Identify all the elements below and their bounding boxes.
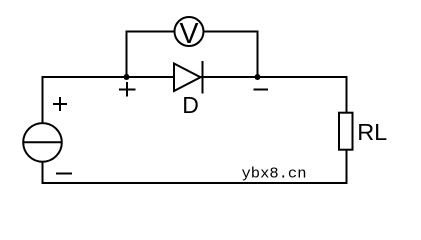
svg-text:RL: RL — [357, 119, 387, 145]
wire: right vertical upper — [346, 76, 348, 113]
wire: left vertical upper — [42, 76, 44, 123]
wire: voltmeter branch left vertical — [126, 31, 128, 78]
node B (right junction dot) — [255, 74, 261, 80]
source BT1 (circle with bar) — [23, 123, 62, 162]
node A (left junction dot) — [124, 74, 130, 80]
wire: voltmeter branch top-left horizontal — [126, 31, 175, 33]
label - (source) — [56, 173, 72, 175]
label + (diode anode) — [119, 82, 136, 97]
wire: right vertical lower — [346, 150, 348, 184]
voltmeter V (meter) — [175, 17, 204, 50]
svg-text:ybx8.cn: ybx8.cn — [242, 166, 307, 183]
resistor RL — [339, 113, 353, 150]
svg-text:V: V — [179, 18, 198, 50]
wire: bottom horizontal — [42, 182, 348, 184]
wire: main top horizontal — [42, 76, 348, 78]
wire: voltmeter branch right vertical — [257, 31, 259, 78]
wire: left vertical lower — [42, 161, 44, 184]
wire: voltmeter branch top-right horizontal — [204, 31, 259, 33]
diode D — [174, 61, 203, 94]
label + (source) — [53, 97, 67, 111]
label - (diode cathode) — [254, 89, 269, 91]
svg-text:D: D — [182, 92, 199, 118]
